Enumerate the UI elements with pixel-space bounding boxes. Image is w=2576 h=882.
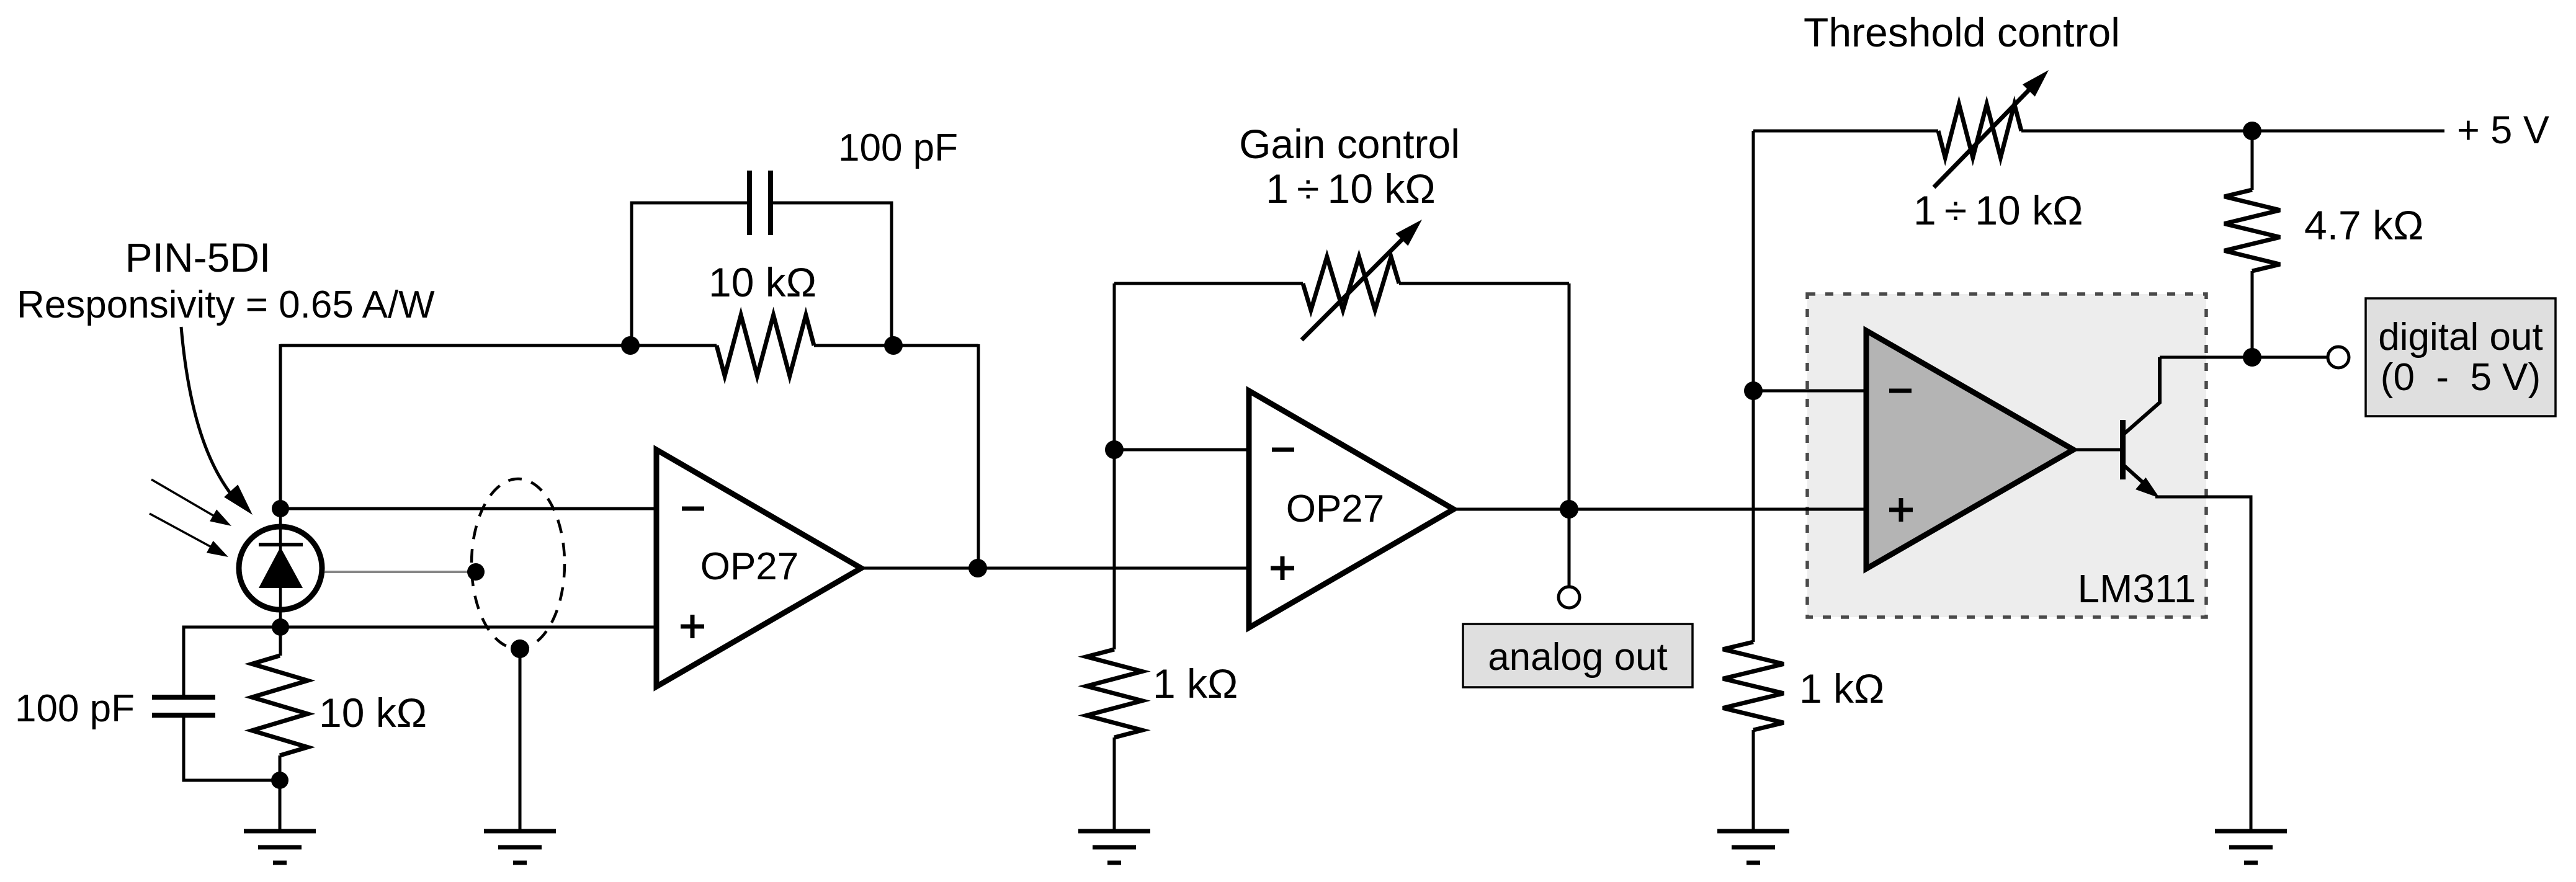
junction dot C1 R1 bottom: [271, 772, 288, 789]
op-amp U2 OP27 triangle: [1249, 391, 1454, 628]
svg-text:1 kΩ: 1 kΩ: [1153, 661, 1238, 706]
svg-text:(0 - 5 V): (0 - 5 V): [2381, 356, 2541, 399]
transistor Q1 base bar: [2120, 420, 2126, 479]
photodiode D1 internal vertical lead: [279, 509, 282, 627]
wire non-inverting input op1: [280, 626, 656, 629]
svg-text:1 ÷ 10 kΩ: 1 ÷ 10 kΩ: [1913, 187, 2083, 233]
op-amp U2 minus sign: [1272, 448, 1294, 452]
svg-text:analog out: analog out: [1488, 636, 1668, 679]
capacitor C2 100pF loop wires: [632, 203, 892, 345]
svg-text:100 pF: 100 pF: [15, 687, 135, 730]
junction dot output1: [968, 559, 987, 577]
stage2 feedback wires: [1114, 283, 1569, 649]
capacitor C2 plates: [749, 171, 771, 235]
svg-text:4.7 kΩ: 4.7 kΩ: [2304, 202, 2423, 248]
potentiometer threshold zigzag: [1938, 104, 2021, 158]
wire collector to digital out: [2160, 356, 2328, 359]
resistor R3 1k lead bottom: [1113, 737, 1116, 831]
potentiometer gain zigzag: [1303, 257, 1399, 310]
junction dot shield tap: [467, 563, 485, 581]
wire analog out tap: [1568, 509, 1571, 587]
svg-text:PIN-5DI: PIN-5DI: [125, 234, 271, 280]
svg-text:10 kΩ: 10 kΩ: [709, 259, 816, 305]
ground emitter: [2215, 831, 2287, 863]
svg-text:10 kΩ: 10 kΩ: [319, 690, 427, 736]
potentiometer gain arrow: [1302, 220, 1422, 340]
wire bottom node to C1 branch: [184, 627, 280, 780]
op-amp U1 minus sign: [682, 507, 704, 511]
junction dot rail: [2243, 122, 2261, 140]
terminal digital out open circle: [2328, 347, 2349, 368]
svg-text:1 kΩ: 1 kΩ: [1799, 666, 1884, 711]
svg-text:Gain control: Gain control: [1239, 121, 1460, 167]
comparator U3 minus sign: [1889, 389, 1912, 393]
resistor R5 4.7k leads: [2251, 131, 2254, 357]
junction dot feedback right: [884, 336, 903, 355]
resistor R2 10k feedback zigzag: [717, 315, 814, 376]
wire inverting input op1: [280, 507, 656, 510]
comparator U3 triangle: [1866, 331, 2073, 569]
label pointer curved arrow: [181, 327, 253, 515]
junction dot photodiode cathode: [272, 500, 289, 517]
wire inverting input op2: [1114, 448, 1249, 452]
light arrow 2: [150, 514, 228, 557]
svg-text:digital out: digital out: [2378, 316, 2542, 359]
photodiode D1 cathode bar: [259, 543, 303, 546]
wire emitter to ground: [2155, 497, 2251, 831]
shield ground wire: [519, 649, 522, 831]
ground stage1: [244, 831, 316, 863]
op-amp U1 plus sign: [681, 615, 704, 638]
wire stage1 feedback left vertical: [279, 344, 282, 509]
svg-text:1 ÷ 10 kΩ: 1 ÷ 10 kΩ: [1266, 166, 1435, 212]
wire feedback net stage1 top run: [280, 344, 978, 347]
svg-text:LM311: LM311: [2078, 566, 2196, 611]
shield ellipse dashed: [472, 479, 565, 649]
junction dot threshold node: [1744, 381, 1763, 400]
transistor Q1 collector: [2124, 357, 2160, 434]
svg-text:Responsivity = 0.65 A/W: Responsivity = 0.65 A/W: [17, 283, 435, 326]
svg-text:OP27: OP27: [700, 545, 799, 588]
resistor R3 1k zigzag: [1086, 649, 1142, 737]
junction dot collector node: [2243, 348, 2261, 367]
op-amp U2 plus sign: [1271, 556, 1294, 580]
junction dot output2: [1560, 500, 1578, 519]
resistor R5 4.7k zigzag: [2224, 190, 2280, 271]
potentiometer threshold arrow: [1934, 70, 2049, 187]
transistor Q1 base wire from comparator: [2073, 448, 2120, 452]
LM311 comparator U3 dashed package box: [1807, 294, 2206, 617]
shield case gray wire: [324, 571, 476, 573]
resistor R4 1k lead bottom: [1752, 730, 1755, 831]
junction dot photodiode anode: [272, 618, 289, 636]
label box digital out: [2366, 298, 2556, 416]
svg-text:+ 5 V: + 5 V: [2457, 109, 2549, 152]
svg-text:100 pF: 100 pF: [838, 127, 958, 169]
svg-text:OP27: OP27: [1286, 488, 1385, 530]
terminal analog out open circle: [1559, 587, 1580, 608]
resistor R4 1k zigzag: [1723, 642, 1784, 730]
ground stage2: [1078, 831, 1150, 863]
svg-text:Threshold control: Threshold control: [1804, 9, 2120, 55]
photodiode D1 anode triangle: [259, 547, 303, 588]
ground stage3: [1717, 831, 1789, 863]
junction dot feedback left: [621, 336, 640, 355]
wire output op2 to comparator: [1454, 508, 1866, 511]
comparator U3 plus sign: [1889, 498, 1913, 522]
capacitor C1 100pF plates: [152, 697, 215, 715]
wire feedback right down-leg to output: [977, 344, 980, 568]
junction dot shield bottom: [511, 639, 529, 658]
resistor R1 10k zigzag: [252, 656, 308, 755]
wire output op1 to op2 noninverting: [861, 567, 1249, 570]
light arrow 1: [151, 479, 231, 526]
ground shield: [484, 831, 556, 863]
op-amp U1 OP27 triangle: [656, 450, 861, 687]
label box analog out: [1463, 624, 1693, 687]
junction dot op2 feedback node: [1105, 440, 1124, 459]
resistor R1 10k leads: [280, 627, 280, 831]
threshold rail wires: [1753, 131, 2444, 642]
wire inverting input comparator: [1753, 390, 1866, 393]
photodiode D1 circle: [239, 527, 322, 610]
transistor Q1 emitter: [2124, 465, 2160, 498]
